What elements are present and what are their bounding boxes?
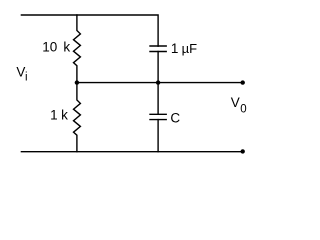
svg-text:0: 0 bbox=[240, 104, 246, 116]
svg-text:V: V bbox=[231, 95, 240, 110]
svg-text:i: i bbox=[25, 71, 28, 83]
svg-text:k: k bbox=[63, 39, 70, 54]
svg-text:1: 1 bbox=[171, 41, 179, 56]
svg-text:10: 10 bbox=[42, 39, 57, 54]
svg-text:1: 1 bbox=[50, 107, 58, 122]
svg-text:k: k bbox=[61, 107, 68, 122]
svg-text:µF: µF bbox=[182, 41, 197, 56]
svg-text:C: C bbox=[170, 111, 180, 126]
